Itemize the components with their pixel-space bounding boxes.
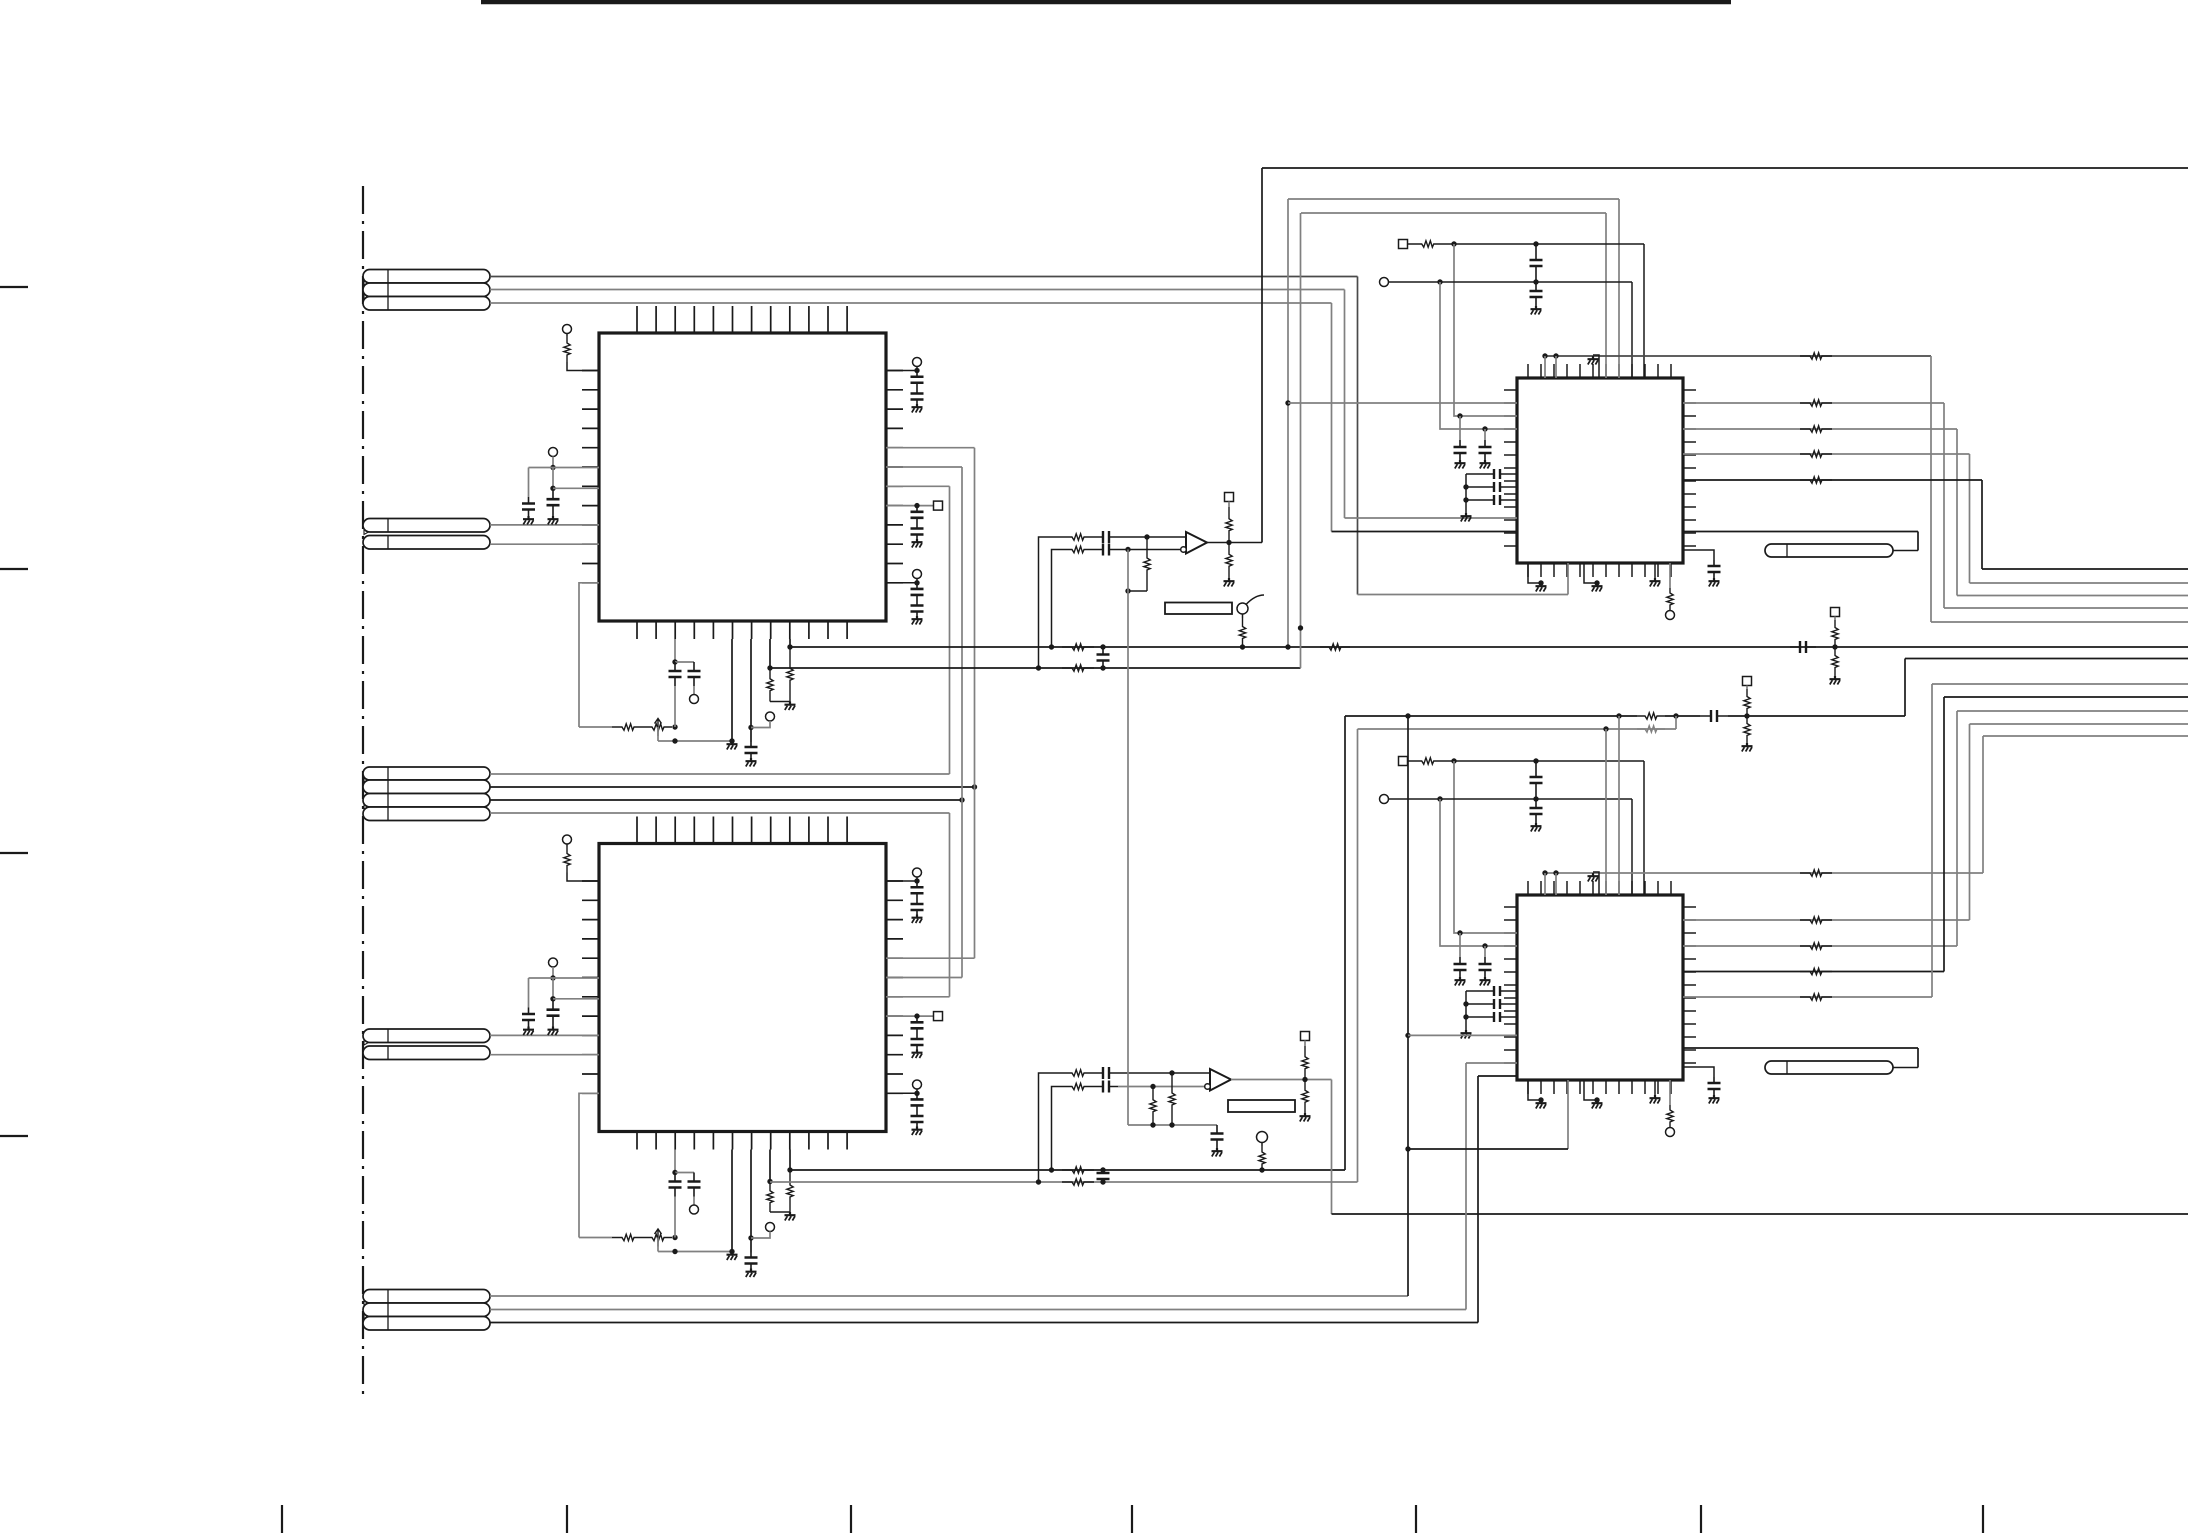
wire to U2 pin: [553, 998, 599, 1000]
ground: [1830, 676, 1841, 685]
wire CN4-2 to U2: [490, 1054, 599, 1056]
pad P4 above A2 output: [1301, 1032, 1310, 1047]
capacitor C25 at U3 pin: [1479, 429, 1492, 460]
wire U4 pin 1048 right segment: [1683, 1047, 1918, 1049]
wire F2b: [1358, 726, 1677, 731]
wire U4 line B2: [1683, 919, 1970, 921]
ground: [548, 1027, 559, 1036]
wire to U1 pin: [553, 487, 599, 489]
capacitor C4: [547, 978, 560, 1027]
wire U4 hook to C37: [1683, 1067, 1714, 1077]
capacitor C23: [1530, 282, 1543, 306]
junction: [672, 724, 677, 729]
wire U3 left in: [1288, 402, 1517, 404]
wire X1 vertical: [1357, 277, 1359, 595]
capacitor C5 pair at U1 bottom: [669, 639, 701, 727]
capacitor C17: [1094, 544, 1118, 556]
resistor R36 on F1b: [1637, 713, 1665, 719]
resistor R30: [1800, 400, 1832, 406]
frame: bottom tick 6: [1700, 1505, 1702, 1533]
wire X3 vertical: [1331, 303, 1333, 532]
IC U2 body: [599, 844, 886, 1132]
bus D wire: [770, 729, 1358, 1182]
wire bottom link: [1408, 1148, 1568, 1150]
resistor R34 to TP13: [1666, 563, 1675, 620]
ground: [1742, 743, 1753, 752]
wire net RES2: [579, 1237, 612, 1239]
resistor R45: [1832, 647, 1838, 676]
wire pair drops: [1545, 356, 1556, 378]
wire U4 gray drop: [1567, 1080, 1569, 1149]
wire P6 drop to U4 pin: [1454, 761, 1517, 936]
test point TP12: [1380, 278, 1389, 287]
ground: [1461, 513, 1472, 522]
resistor R42: [1800, 994, 1832, 1000]
wire P5 drop to U3 pin: [1454, 244, 1517, 419]
capacitor C35: [1477, 999, 1517, 1009]
wire CN5-1 to U4 pin link: [1408, 1034, 1517, 1036]
wire U4 gnd hook 1: [1528, 1080, 1544, 1103]
frame: board boundary dash-dot line: [362, 186, 364, 1398]
resistor R11: [1062, 534, 1094, 540]
test point TP5: [751, 712, 775, 728]
test point TP11: [1257, 1132, 1268, 1143]
resistor R21 pulldown: [1169, 1073, 1175, 1125]
wire dot pair line A2: [1542, 870, 1983, 875]
wire CN5-3 to U4 pin: [1478, 1075, 1517, 1077]
resistor R12: [1062, 546, 1094, 552]
resistor R37 on F2b: [1637, 726, 1665, 732]
resistor R15: [1226, 543, 1232, 579]
resistor R47: [1744, 689, 1750, 716]
ground: [1480, 977, 1491, 986]
ground: [1709, 1095, 1720, 1104]
IC U3 body: [1517, 378, 1683, 563]
wire U4 line C2: [1683, 945, 1957, 947]
wire line E corner: [1982, 480, 2188, 569]
capacitor C13: [911, 1016, 924, 1049]
wire X2 to U3 pin: [1345, 517, 1518, 519]
wire line A corner: [1931, 356, 2188, 622]
op-amp buffer A1: [1181, 532, 1207, 554]
resistor R38 on line A2: [1800, 870, 1832, 876]
ground: [1300, 1113, 1311, 1122]
resistor R13 pulldown: [1125, 537, 1150, 594]
wire U3 line E: [1683, 479, 1982, 481]
resistor R9 on bus A: [1049, 644, 1106, 650]
test point TP4: [549, 958, 558, 967]
ground: [548, 516, 559, 525]
wire A2 output to right edge: [1332, 1213, 2188, 1215]
connector CN2 capsule group (2 pins): [363, 519, 490, 550]
capacitor C33 at U4 pin: [1479, 946, 1492, 977]
test point TP14: [1380, 795, 1389, 804]
wire F2 drop to bus B: [1298, 213, 1303, 668]
bus B wire: [770, 667, 1301, 669]
wire to buffer2 inv: [1118, 1084, 1206, 1089]
resistor R7: [767, 1182, 773, 1213]
wire U2 pin12 down-left: [579, 1093, 599, 1237]
wire CN5-3: [490, 1322, 1478, 1324]
frame: title underline: [481, 0, 1731, 4]
ground: [727, 1252, 738, 1261]
wire pair drops 2: [1545, 873, 1556, 895]
frame: left fold tick 4: [0, 1135, 28, 1137]
junction: [1832, 644, 1837, 649]
resistor R16 below SW1: [1239, 614, 1245, 650]
capacitor C26: [1477, 469, 1517, 479]
wire CN5-3 riser: [1477, 1076, 1479, 1323]
capacitor C29: [1708, 560, 1721, 578]
wire buffer A2 output: [1231, 1077, 1332, 1214]
frame: left fold tick 1: [0, 286, 28, 288]
test point TP10 at U2 pin: [886, 1080, 922, 1096]
capacitor C8 at U2 pin: [745, 1150, 758, 1269]
capacitor C15 between buses: [1097, 647, 1110, 671]
capacitor C2: [547, 468, 560, 517]
wire X2 vertical: [1344, 290, 1346, 519]
wire TP4 to U2: [529, 967, 600, 981]
ground: [912, 1127, 923, 1136]
resistor R23: [1302, 1046, 1308, 1080]
wire U4 line D2: [1683, 971, 1944, 973]
IC U4 body: [1517, 895, 1683, 1080]
wire U3 gnd hook 1: [1528, 563, 1544, 586]
wire A1 output to top bus: [1261, 168, 1263, 543]
wire line E2 corner: [1932, 684, 2188, 997]
wire CN1-1 to node X1: [490, 276, 1358, 278]
wire CN3-4: [490, 812, 950, 814]
resistor R14: [1226, 507, 1232, 543]
wire F2b vertical to U4: [1605, 729, 1607, 895]
wire net RES1: [579, 726, 612, 728]
capacitor C3: [522, 978, 535, 1027]
pad P6: [1399, 757, 1408, 766]
wire coupling common 2: [1463, 991, 1477, 1030]
wire F2: [1301, 212, 1606, 214]
wire TP14 net vertical to U4 top: [1631, 799, 1633, 895]
resistor R1 with test point TP1 at U1 pin1: [563, 325, 600, 371]
wire line A2 corner: [1983, 736, 2188, 873]
wire X1 to U3 bottom link: [1358, 563, 1569, 595]
switch SW1: [1237, 595, 1264, 614]
ground: [1461, 1030, 1472, 1039]
IC U3 pins: [1504, 364, 1696, 577]
frame: bottom tick 1: [281, 1505, 283, 1533]
capacitor C6 at U1 pin: [745, 639, 758, 758]
test point TP6: [751, 1223, 775, 1239]
relay box K1: [1165, 603, 1232, 615]
ground: [1592, 1100, 1603, 1109]
wire line C2 corner: [1957, 711, 2188, 946]
wire U4 gnd hook 2: [1584, 1080, 1600, 1103]
ground: [785, 1212, 796, 1221]
capacitor C21: [1211, 1125, 1224, 1148]
frame: bottom tick 2: [566, 1505, 568, 1533]
resistor R31: [1800, 426, 1832, 432]
resistor R20: [1062, 1083, 1094, 1089]
wire U1 pin to bus A: [787, 639, 792, 650]
capacitor C24 at U3 pin: [1454, 416, 1467, 460]
wire F1b exit: [1905, 659, 2188, 717]
capacitor C18 between buses: [1097, 1170, 1110, 1185]
ground: [1455, 977, 1466, 986]
ground hook at U4 top: [1588, 872, 1600, 895]
capacitor C28: [1477, 495, 1517, 505]
wire TP12 net: [1389, 279, 1633, 284]
capacitor C20: [1094, 1081, 1118, 1093]
capacitor C12: [911, 881, 924, 915]
resistor R19: [1062, 1070, 1094, 1076]
wire TP14 drop to U4 pin: [1440, 799, 1517, 949]
capacitor C14: [911, 1093, 924, 1126]
resistor R18 on bus D: [1036, 1179, 1094, 1185]
resistor R4: [767, 668, 773, 702]
relay box K2: [1228, 1100, 1295, 1112]
junction: [1665, 713, 1700, 718]
wire line D corner: [1970, 454, 2188, 583]
wire U4 line E2: [1683, 996, 1932, 998]
capacitor C11: [911, 583, 924, 616]
pad P1 at U1 pin: [886, 501, 943, 510]
connector CN3 capsule group (4 pins): [363, 767, 490, 821]
wire F2b corner up: [1675, 716, 1677, 729]
resistor R46 on bus A: [1320, 644, 1350, 650]
ground: [1531, 823, 1542, 832]
bus A wire: [790, 646, 2188, 648]
wire CN5-2 to U4 pin: [1466, 1062, 1517, 1064]
resistor R2 with test point TP3 at U2 pin1: [563, 835, 600, 881]
variable resistor VR1: [644, 719, 672, 737]
wire P5 net vertical to U3 top: [1643, 244, 1645, 378]
resistor R3: [612, 724, 644, 730]
resistor R10 on bus B: [1036, 665, 1094, 671]
connector CN7 capsule: [1765, 1061, 1893, 1074]
ground: [1709, 578, 1720, 587]
test point TP9 at U2 pin: [886, 868, 922, 884]
IC U2 pins: [582, 817, 903, 1150]
wire line C corner: [1957, 429, 2188, 596]
ground: [727, 741, 738, 750]
resistor R44: [1832, 620, 1838, 647]
ground: [912, 616, 923, 625]
wire X3 to U3 pin: [1332, 531, 1518, 533]
op-amp buffer A2: [1205, 1069, 1231, 1091]
wire U3 pin 531 right segment: [1683, 531, 1918, 533]
capacitor C9: [911, 371, 924, 405]
test point TP7 at U1 pin: [886, 358, 922, 374]
wire VR2 tap to ground rail: [658, 1238, 732, 1255]
resistor R41: [1800, 968, 1832, 974]
resistor R5: [787, 647, 793, 702]
resistor R6: [612, 1234, 644, 1240]
ground hook at U3 top: [1588, 355, 1600, 378]
variable resistor VR2: [644, 1229, 672, 1247]
capacitor C38 series on bus A: [1790, 641, 1816, 653]
ground: [1455, 460, 1466, 469]
wire U3 hook to C29: [1683, 550, 1714, 560]
resistor R32: [1800, 451, 1832, 457]
pad P2 at U2 pin: [886, 1012, 943, 1021]
ground: [912, 404, 923, 413]
capacitor C10: [911, 506, 924, 539]
wire F1 drop to bus A: [1285, 199, 1290, 650]
frame: left fold tick 2: [0, 568, 28, 570]
wire U3 line B: [1683, 402, 1944, 404]
ground: [746, 1269, 757, 1278]
wire F1 vertical to U3: [1618, 199, 1620, 378]
resistor R28: [1408, 241, 1449, 247]
ground: [912, 1050, 923, 1059]
connector CN5 capsule group (3 pins): [363, 1290, 490, 1331]
resistor R35: [1408, 758, 1449, 764]
wire CN3-2: [490, 784, 977, 789]
wire P6 net vertical to U4 top: [1643, 761, 1645, 895]
wire U2 pin GND: [729, 1150, 734, 1255]
resistor R43 to TP15: [1666, 1080, 1675, 1137]
capacitor C19: [1094, 1067, 1118, 1079]
wire CN5-2: [490, 1309, 1466, 1311]
wire CN1-3 to node X3: [490, 302, 1332, 304]
wire TP12 drop to U3 pin: [1440, 282, 1517, 432]
ground: [1592, 583, 1603, 592]
wire buffer A1 output: [1207, 540, 1262, 545]
test point TP2: [549, 448, 558, 457]
wire U3 line C: [1683, 428, 1957, 430]
wire buffer2 input2: [1052, 1087, 1063, 1171]
wire U2 pin to bus C: [787, 1150, 792, 1173]
IC U4 pins: [1504, 881, 1696, 1094]
wire U2 pin to bus D: [767, 1150, 772, 1185]
ground: [912, 539, 923, 548]
wire F1b to corner: [1728, 713, 1905, 718]
wire CN2-2 to U1: [490, 543, 599, 545]
ground: [1536, 1100, 1547, 1109]
capacitor C34: [1477, 986, 1517, 996]
resistor R8: [787, 1170, 793, 1212]
ground: [1480, 460, 1491, 469]
wire CN5-1: [490, 1295, 1408, 1297]
wire CN5-1 riser: [1405, 716, 1410, 1296]
frame: bottom tick 4: [1131, 1505, 1133, 1533]
op-amp main IC U1 body: [599, 333, 886, 621]
wire to buffer1: [1118, 547, 1182, 552]
frame: bottom tick 5: [1415, 1505, 1417, 1533]
IC U1 pins: [582, 306, 903, 639]
capacitor C16: [1094, 531, 1118, 543]
connector CN4 capsule group (2 pins): [363, 1029, 490, 1060]
junction: [672, 1235, 677, 1240]
pad P3 above A1 output: [1225, 493, 1234, 508]
wire U1 pin to bus B: [767, 639, 772, 671]
pad P5: [1399, 240, 1408, 249]
wire dot pair line A: [1542, 353, 1931, 358]
wire line D2 corner: [1944, 697, 2188, 972]
capacitor C22: [1530, 244, 1543, 282]
wire F2 vertical to U3: [1605, 213, 1607, 378]
frame: left fold tick 3: [0, 852, 28, 854]
capacitor C30: [1530, 761, 1543, 799]
ground: [1212, 1148, 1223, 1157]
wire TP2 to U1: [529, 457, 600, 471]
wire line B2 corner: [1970, 724, 2188, 920]
wire pulldown rail: [1128, 550, 1217, 1128]
frame: bottom tick 7: [1982, 1505, 1984, 1533]
wire U3.531 to CN6: [1893, 532, 1918, 551]
wire CN5-2 riser: [1465, 1063, 1467, 1310]
wire F1b vertical to U4: [1618, 716, 1620, 895]
capacitor C39 series on F1b: [1700, 710, 1728, 722]
wire buffer1 input1: [1039, 537, 1063, 668]
capacitor C1: [522, 468, 535, 517]
ground stub U3: [1650, 563, 1661, 587]
resistor R25: [1259, 1143, 1265, 1173]
ground: [1531, 306, 1542, 315]
wire TP14 net: [1389, 796, 1633, 801]
ground: [785, 702, 796, 711]
wire F1b bus: [1345, 713, 1637, 718]
wire U1 pin GND: [729, 639, 734, 744]
ground stub U4: [1650, 1080, 1661, 1104]
wire U1 pin12 down-left: [579, 583, 599, 727]
ground: [523, 516, 534, 525]
ground: [1536, 583, 1547, 592]
wire CN2-1 to U1: [490, 524, 599, 526]
wire coupling common: [1463, 474, 1477, 513]
wire buffer2 input1: [1039, 1073, 1063, 1182]
resistor R33: [1800, 477, 1832, 483]
wire to buffer2: [1118, 1070, 1210, 1075]
capacitor C36: [1477, 1012, 1517, 1022]
wire to junction: [1118, 534, 1186, 539]
connector CN1 capsule group (3 pins): [363, 270, 490, 311]
resistor R48: [1744, 716, 1750, 743]
connector CN6 capsule: [1765, 544, 1893, 557]
wire CN3-4 to U2.996: [886, 813, 950, 997]
wire U1.467-U2.978 vertical: [886, 467, 962, 978]
wire CN1-2 to node X2: [490, 289, 1345, 291]
wire CN3-1: [490, 773, 950, 775]
pad P8 above F1b: [1743, 677, 1752, 690]
ground: [912, 915, 923, 924]
wire P6 net: [1448, 758, 1644, 763]
bus C wire: [790, 716, 1345, 1170]
wire U1.486 to CN3-1: [886, 486, 950, 774]
pad P7: [1831, 608, 1840, 621]
wire VR1 tap to ground rail: [658, 727, 732, 744]
resistor R17 on bus C: [1049, 1167, 1106, 1173]
wire U3 line D: [1683, 453, 1970, 455]
wire U4.1048 to CN7: [1893, 1048, 1918, 1068]
ground: [523, 1027, 534, 1036]
wire buffer1 input2: [1052, 550, 1063, 648]
resistor R24: [1302, 1080, 1308, 1114]
capacitor C37: [1708, 1077, 1721, 1095]
capacitor C27: [1477, 482, 1517, 492]
resistor R40: [1800, 943, 1832, 949]
ground: [746, 758, 757, 767]
wire TP12 net vertical to U3 top: [1631, 282, 1633, 378]
capacitor C31: [1530, 799, 1543, 823]
resistor R29 on line A: [1800, 353, 1832, 359]
wire top bus to right edge: [1262, 167, 2188, 169]
resistor R22 pulldown: [1150, 1087, 1156, 1126]
wire U1.447-U2.958 vertical: [886, 448, 975, 959]
wire U3 gnd hook 2: [1584, 563, 1600, 586]
test point TP8 at U1 pin: [886, 570, 922, 586]
capacitor C7 pair at U2 bottom: [669, 1150, 701, 1238]
capacitor C32 at U4 pin: [1454, 933, 1467, 977]
